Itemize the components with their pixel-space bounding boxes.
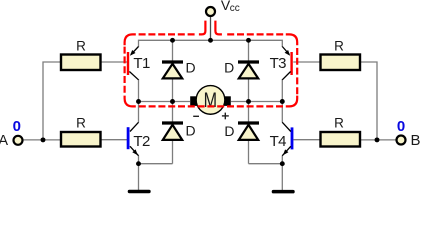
ground right	[272, 190, 295, 194]
svg-text:A: A	[0, 133, 8, 149]
diode D top-right	[238, 62, 259, 78]
resistor R4 (bottom-right)	[321, 132, 361, 147]
svg-text:D: D	[224, 60, 234, 76]
wire: Vcc stem	[210, 17, 212, 41]
wire: bottom-right link	[249, 163, 283, 165]
junction dot motor rail / BL diode	[170, 99, 175, 104]
transistor T1 (PNP, red bar)	[127, 47, 139, 80]
wire: T4 base to R4	[294, 139, 321, 141]
junction dot top rail / TL diode	[170, 38, 175, 43]
transistor T2 (NPN, blue bar)	[127, 122, 139, 155]
wire: top-right diode branch	[248, 40, 250, 101]
wire: motor rail left	[139, 101, 191, 103]
svg-text:D: D	[224, 123, 234, 139]
resistor R2 (bottom-left)	[61, 132, 101, 147]
wire: T3 base to R3	[293, 61, 320, 63]
red dashed conduction loop	[224, 33, 283, 35]
wire: motor rail right	[231, 101, 282, 103]
svg-text:T2: T2	[133, 133, 150, 150]
wire: A junction to R2	[43, 139, 61, 141]
junction dot motor rail right end	[280, 99, 285, 104]
svg-text:R: R	[76, 115, 86, 130]
wire: terminal A to junction	[24, 139, 44, 141]
label plus	[222, 113, 229, 120]
junction dot motor rail / BR diode	[246, 99, 251, 104]
wire: T1 collector drop	[138, 79, 140, 102]
svg-text:T3: T3	[270, 55, 287, 72]
wire: left ground stem	[138, 164, 140, 190]
svg-text:D: D	[186, 60, 196, 76]
wire: T2 emitter to junction	[138, 156, 140, 164]
svg-text:R: R	[334, 115, 344, 130]
wire: bottom-left link	[139, 163, 173, 165]
wire: T4 emitter to junction	[281, 156, 283, 164]
wire: R2 to T2 base	[101, 139, 128, 141]
diode D bottom-left	[162, 123, 183, 140]
wire: bottom-right diode branch	[248, 102, 250, 164]
svg-text:D: D	[186, 123, 196, 139]
wire: bottom-left diode branch	[172, 102, 174, 164]
junction dot bottom-left	[136, 161, 141, 166]
wire: T3 collector drop	[281, 79, 283, 102]
ground left	[128, 190, 151, 193]
wire: T4 collector rise	[281, 102, 283, 123]
svg-text:0: 0	[13, 118, 21, 135]
wire: A junction riser	[43, 62, 61, 140]
svg-text:B: B	[411, 132, 421, 149]
resistor R1 (top-left)	[61, 55, 101, 71]
wire: terminal B to junction	[377, 139, 396, 141]
transistor T3 (PNP, red bar)	[282, 47, 293, 80]
junction dot top rail / TR diode	[246, 38, 251, 43]
label minus	[193, 115, 199, 117]
junction dot top rail / Vcc	[208, 38, 213, 43]
wire: right ground stem	[281, 164, 283, 190]
junction dot A branch	[41, 137, 46, 142]
svg-text:cc: cc	[230, 3, 240, 14]
junction dot motor rail left end	[136, 99, 141, 104]
junction dot bottom-right	[280, 161, 285, 166]
transistor T4 (NPN, blue bar)	[282, 122, 293, 155]
wire: B junction riser	[360, 62, 377, 140]
svg-text:R: R	[334, 39, 344, 54]
wire: top-left diode branch	[172, 40, 174, 101]
wire: T2 collector rise	[138, 102, 140, 123]
svg-text:T4: T4	[270, 133, 287, 150]
diode D top-left	[162, 62, 183, 78]
svg-text:T1: T1	[133, 55, 150, 72]
motor M	[190, 86, 231, 115]
svg-text:R: R	[76, 39, 86, 54]
wire: R1 to T1 base	[101, 61, 128, 63]
svg-text:M: M	[204, 89, 217, 113]
svg-text:0: 0	[397, 118, 405, 135]
terminal Vcc	[206, 7, 215, 16]
junction dot B branch	[375, 137, 380, 142]
terminal A	[14, 136, 23, 145]
terminal B	[397, 136, 406, 145]
diode D bottom-right	[238, 123, 259, 140]
wire: top rail	[139, 40, 283, 47]
resistor R3 (top-right)	[321, 55, 361, 71]
wire: R4 to B junction	[360, 139, 377, 141]
